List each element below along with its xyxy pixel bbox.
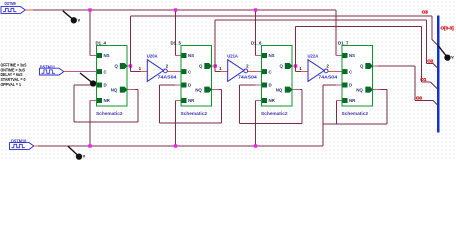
wire U22A output stub (orange) xyxy=(328,71,334,73)
wire NQ3 feedback loop to D3 xyxy=(292,89,300,91)
wire O3 drop and bus entry xyxy=(431,16,433,40)
wire NS stub stage 3 xyxy=(256,55,262,57)
svg-text:O1: O1 xyxy=(420,77,427,82)
wire U21A input stub (orange) xyxy=(221,71,228,73)
svg-text:DSTM11: DSTM11 xyxy=(40,64,56,69)
wire Q stub stage 2 xyxy=(212,65,216,67)
svg-text:D1_4: D1_4 xyxy=(96,40,107,45)
wire O2 drop and bus entry xyxy=(425,20,427,63)
svg-text:NS: NS xyxy=(349,53,355,58)
svg-text:Schematic2: Schematic2 xyxy=(342,111,369,116)
junction top rail / NS1 xyxy=(88,8,91,11)
wire O line stage 1 xyxy=(131,15,432,17)
svg-text:NS: NS xyxy=(188,53,194,58)
wire NS stub stage 4 xyxy=(336,55,342,57)
wire NQ2 feedback loop to D2 xyxy=(212,89,220,91)
wire clock to C1 xyxy=(69,71,97,73)
wire Q2 down to inverter xyxy=(214,66,216,72)
wire NQ4 feedback loop to D4 xyxy=(373,89,381,91)
wire NS stub stage 1 xyxy=(90,55,97,57)
junction node Q2 xyxy=(214,64,217,67)
inverter U21A 74AS04 xyxy=(228,60,244,82)
svg-text:74AS04: 74AS04 xyxy=(238,74,257,79)
wire Q2 up to O line xyxy=(214,20,216,66)
svg-text:NR: NR xyxy=(269,98,276,103)
wire NS riser stage 2 xyxy=(175,10,177,56)
svg-text:NQ: NQ xyxy=(356,87,363,92)
wire NS riser stage 1 xyxy=(89,10,91,56)
svg-text:NR: NR xyxy=(349,98,356,103)
wire Q stub stage 3 xyxy=(292,65,296,67)
wire NR4 stub xyxy=(337,100,343,102)
svg-text:D: D xyxy=(349,83,352,88)
flip-flop block D1_6 (Schematic2) xyxy=(262,46,293,106)
svg-text:O3: O3 xyxy=(422,10,429,15)
flip-flop block D1_7 (Schematic2) xyxy=(342,46,373,106)
flip-flop block D1_4 (Schematic2) xyxy=(97,46,128,106)
wire U22A input stub (orange) xyxy=(301,71,308,73)
svg-text:NQ: NQ xyxy=(195,87,202,92)
svg-text:D1_6: D1_6 xyxy=(251,40,262,45)
junction node Q3 xyxy=(294,64,297,67)
wire to U21A input xyxy=(215,71,221,73)
digital stimulus DSTM11 xyxy=(40,68,64,75)
wire top set rail xyxy=(33,9,336,11)
wire DSTM9 output (orange) xyxy=(25,9,33,11)
voltage probe on bus O3 xyxy=(438,45,447,57)
wire U21A output stub (orange) xyxy=(248,71,254,73)
svg-text:U21A: U21A xyxy=(227,53,238,58)
svg-text:Q: Q xyxy=(199,64,203,69)
svg-text:D: D xyxy=(269,83,272,88)
wire reset rail riser to NR4 xyxy=(322,124,324,146)
wire NQ1 feedback loop to D1 xyxy=(127,89,135,91)
wire Q4 to O0 bus entry xyxy=(373,65,379,67)
wire to U20A input xyxy=(131,71,141,73)
svg-text:Q: Q xyxy=(360,64,364,69)
inverter U20A 74AS04 xyxy=(147,60,163,82)
wire O line stage 3 xyxy=(296,25,422,27)
wire U20A output stub (orange) xyxy=(167,71,173,73)
svg-text:NS: NS xyxy=(104,53,110,58)
wire Q1 down to inverter xyxy=(130,66,132,72)
svg-text:NS: NS xyxy=(269,53,275,58)
svg-text:U22A: U22A xyxy=(308,53,319,58)
wire DSTM11 output (orange) xyxy=(64,71,69,73)
svg-text:Schematic2: Schematic2 xyxy=(96,111,123,116)
wire O1 drop and bus entry xyxy=(421,26,423,82)
svg-text:Schematic2: Schematic2 xyxy=(261,111,288,116)
digital stimulus DSTM9 xyxy=(1,7,25,14)
wire clock to C2 xyxy=(173,71,181,73)
wire clock to C4 xyxy=(334,71,343,73)
svg-text:NR: NR xyxy=(188,98,195,103)
svg-text:O[0-3]: O[0-3] xyxy=(441,26,455,31)
inverter U22A 74AS04 xyxy=(308,60,324,82)
wire NR riser stage 2 xyxy=(175,101,177,147)
wire NR stub stage 3 xyxy=(256,100,262,102)
svg-text:O0: O0 xyxy=(416,96,423,101)
svg-text:D: D xyxy=(188,83,191,88)
svg-text:OPPVAL = 1: OPPVAL = 1 xyxy=(1,82,22,87)
digital stimulus DSTM10 xyxy=(10,143,34,150)
wire U20A input stub (orange) xyxy=(140,71,147,73)
flip-flop block D1_5 (Schematic2) xyxy=(181,46,212,106)
voltage probe on clock wire xyxy=(80,73,93,83)
svg-text:Q: Q xyxy=(115,64,119,69)
svg-text:D1_7: D1_7 xyxy=(338,40,349,45)
wire O line stage 2 xyxy=(215,19,426,21)
voltage probe on reset rail xyxy=(68,146,79,156)
wire NR riser stage 3 xyxy=(255,101,257,147)
voltage probe on set rail xyxy=(63,11,74,20)
wire Q3 down to inverter xyxy=(295,66,297,72)
junction bottom rail / NR3 xyxy=(254,144,257,147)
wire NR stub stage 1 xyxy=(90,100,97,102)
wire Q3 up to O line xyxy=(295,26,297,66)
svg-text:74AS04: 74AS04 xyxy=(158,74,177,79)
svg-text:U20A: U20A xyxy=(147,53,158,58)
svg-text:Q: Q xyxy=(280,64,284,69)
wire to U22A input xyxy=(296,71,301,73)
svg-text:NQ: NQ xyxy=(276,87,283,92)
wire Q stub stage 1 xyxy=(127,65,131,67)
junction node Q1 xyxy=(129,64,132,67)
bus O[0-3] xyxy=(437,16,440,133)
svg-text:NQ: NQ xyxy=(111,87,118,92)
wire NR riser stage 1 xyxy=(89,101,91,147)
junction top rail / NS2 xyxy=(174,8,177,11)
wire Q1 up to O line xyxy=(130,16,132,66)
wire bottom reset rail xyxy=(38,145,323,147)
svg-text:Schematic2: Schematic2 xyxy=(181,111,208,116)
svg-text:NR: NR xyxy=(104,98,111,103)
svg-text:DSTM9: DSTM9 xyxy=(5,1,17,6)
junction bottom rail / NR2 xyxy=(174,144,177,147)
wire NR stub stage 2 xyxy=(176,100,182,102)
wire clock to C3 xyxy=(253,71,261,73)
svg-text:O2: O2 xyxy=(427,59,434,64)
junction bottom rail / NR1 xyxy=(88,144,91,147)
wire DSTM10 output (orange) xyxy=(34,145,38,147)
wire NS riser stage 3 xyxy=(255,10,257,56)
svg-text:D1_5: D1_5 xyxy=(171,40,182,45)
svg-text:D: D xyxy=(104,83,107,88)
wire NS riser stage 4 xyxy=(335,10,337,56)
junction top rail / NS3 xyxy=(254,8,257,11)
svg-text:74AS04: 74AS04 xyxy=(318,74,337,79)
wire NS stub stage 2 xyxy=(176,55,182,57)
svg-text:DSTM10: DSTM10 xyxy=(11,138,27,143)
